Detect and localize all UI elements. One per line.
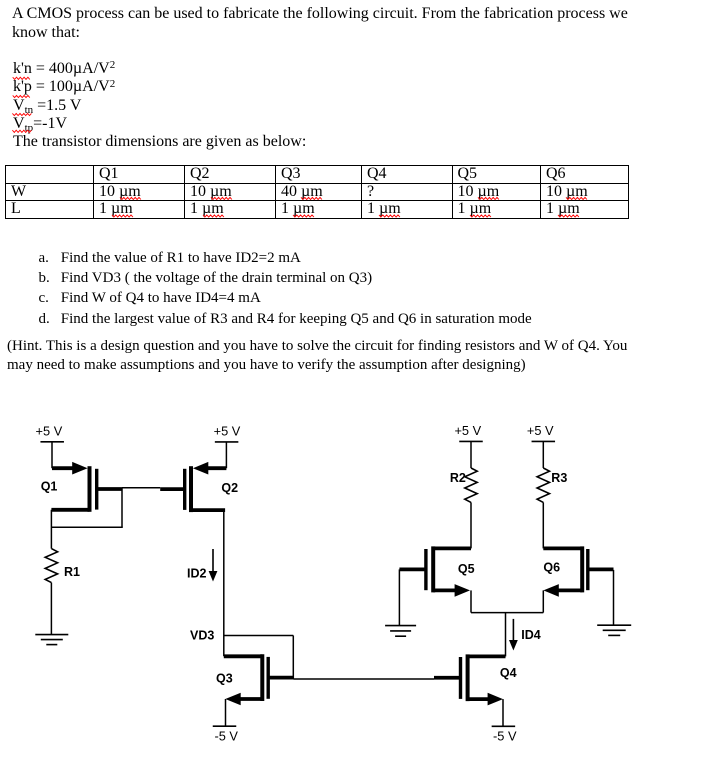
wire Q4 source to -5V (502, 699, 504, 726)
svg-text:Q1: Q1 (41, 479, 58, 493)
wire Q5 source down to tail node (470, 590, 472, 612)
power +5V (Q1 source supply) (36, 423, 64, 441)
wire Q6 gate down to ground (613, 570, 615, 625)
wire +5V bar to R2 (470, 441, 472, 468)
svg-text:Q3: Q3 (216, 671, 233, 685)
wire R2 to Q5 drain (470, 502, 472, 548)
wire Q1 gate to Q2 gate (122, 487, 160, 489)
svg-text:ID4: ID4 (521, 628, 541, 642)
wire Q3 source to -5V (225, 699, 227, 726)
wire Q5 gate down to ground (398, 569, 400, 625)
svg-text:Q5: Q5 (458, 562, 475, 576)
power -5V (Q3 source supply) (213, 726, 239, 743)
svg-text:Q6: Q6 (543, 561, 560, 575)
wire Q1 gate feedback horizontal (51, 526, 122, 528)
transistor Q1 (51, 462, 122, 512)
svg-text:R1: R1 (64, 565, 80, 579)
wire Q3 gate to Q4 gate (293, 678, 434, 680)
svg-text:+5 V: +5 V (36, 423, 63, 438)
transistor Q3 (224, 654, 293, 705)
wire +5V bar to R3 (542, 441, 544, 468)
spellcheck underline marks (12, 77, 587, 217)
wire differential tail node (471, 612, 543, 614)
svg-text:R2: R2 (450, 471, 466, 485)
wire Q1 gate feedback vertical (121, 488, 123, 528)
svg-text:-5 V: -5 V (493, 728, 517, 743)
wire tail node down to Q4 drain (505, 613, 507, 657)
power +5V (R3 supply) (527, 423, 555, 441)
current arrow ID2 (209, 549, 218, 582)
wire VD3 branch down to gate line (292, 636, 294, 680)
wire VD3 node to Q3 gate branch (horizontal) (224, 635, 293, 637)
svg-text:VD3: VD3 (190, 629, 214, 643)
wire R3 to Q6 drain (542, 502, 544, 548)
transistor Q4 (434, 654, 506, 705)
svg-text:+5 V: +5 V (527, 423, 554, 438)
svg-text:R3: R3 (551, 471, 567, 485)
wire +5V bar to Q1 drain lead (51, 442, 53, 468)
svg-text:+5 V: +5 V (454, 423, 481, 438)
wire R1 to ground (50, 583, 52, 635)
transistor Q2 (160, 462, 226, 512)
svg-text:Q2: Q2 (221, 481, 238, 495)
ground (below R1) (35, 635, 68, 645)
resistor R2 (465, 468, 477, 502)
transistor Q6 (543, 546, 613, 596)
svg-text:Q4: Q4 (500, 666, 517, 680)
svg-text:ID2: ID2 (187, 566, 207, 580)
wire +5V bar to Q2 drain lead (225, 442, 227, 468)
svg-text:-5 V: -5 V (214, 728, 238, 743)
ground (Q5 gate) (385, 626, 416, 637)
power -5V (Q4 source supply) (492, 726, 517, 743)
resistor R1 (45, 549, 57, 583)
power +5V (Q2 source supply) (214, 424, 241, 442)
wire Q2 source down to Q3 drain (VD3 net) (223, 510, 225, 656)
wire Q6 source down to tail node (542, 590, 544, 612)
power +5V (R2 supply) (454, 423, 482, 441)
svg-text:+5 V: +5 V (214, 424, 241, 439)
wire Q1 source down to R1 (50, 510, 52, 549)
ground (Q6 gate) (597, 625, 631, 635)
current arrow ID4 (509, 619, 518, 651)
resistor R3 (537, 468, 549, 502)
transistor Q5 (399, 546, 471, 596)
